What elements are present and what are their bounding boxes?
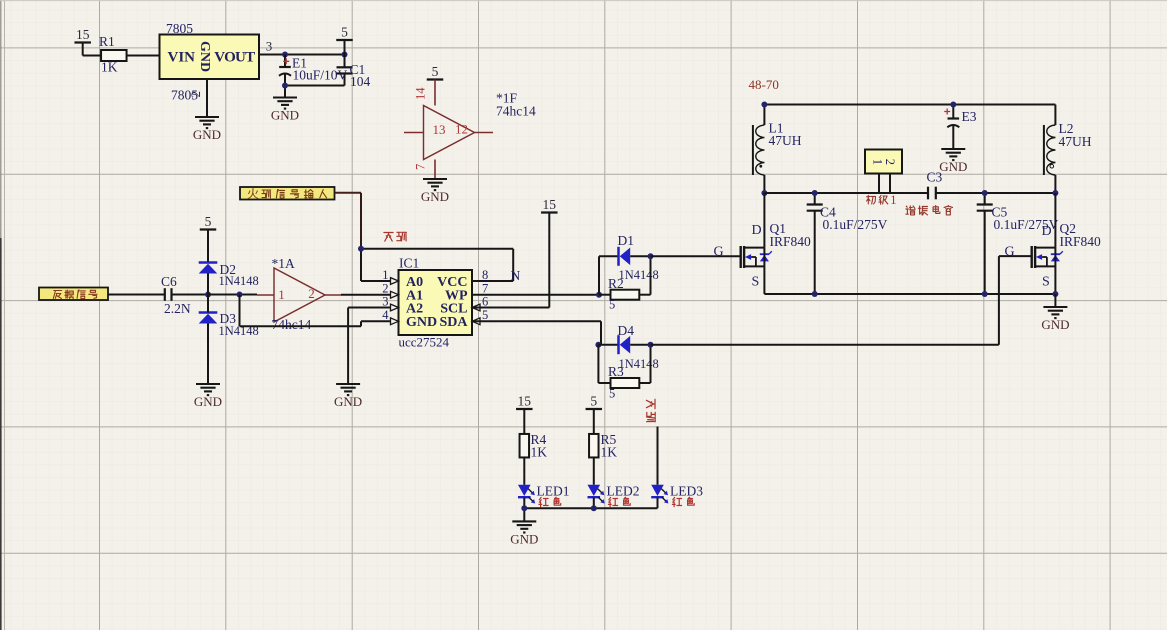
wire mid rail to Q1 drain — [763, 193, 765, 248]
svg-text:ucc27524: ucc27524 — [399, 335, 450, 350]
svg-text:R1: R1 — [99, 34, 115, 49]
svg-text:5: 5 — [205, 214, 212, 229]
junction pin5/D4 — [595, 342, 601, 348]
svg-text:G: G — [714, 245, 724, 260]
junction Q2 source — [1052, 291, 1058, 297]
svg-text:D: D — [752, 223, 762, 238]
resistor R5 1K — [589, 432, 617, 485]
svg-text:8: 8 — [482, 268, 488, 282]
junction L2 bottom — [1052, 190, 1058, 196]
transistor Q2 IRF840 — [1005, 221, 1102, 294]
junction C6/D2/D3 — [205, 292, 211, 298]
svg-text:7: 7 — [414, 164, 428, 170]
capacitor C4 0.1uF/275V — [807, 193, 888, 294]
wire source bus — [764, 293, 1055, 295]
svg-text:1N4148: 1N4148 — [619, 357, 659, 371]
power rail +5 above R5 — [586, 394, 603, 435]
wire to Q2 gate — [651, 256, 1032, 345]
svg-text:S: S — [752, 275, 760, 290]
svg-text:SCL: SCL — [440, 301, 467, 316]
svg-text:5: 5 — [609, 387, 615, 401]
junction net 灭弧 — [358, 246, 364, 252]
junction E1 bottom — [282, 83, 288, 89]
LED1 red — [518, 484, 570, 509]
capacitor C1 104 — [337, 55, 371, 89]
ground under E1/C1 — [271, 98, 299, 123]
wire pin7 to gate node — [472, 294, 599, 296]
net label 48-70 — [749, 77, 779, 92]
diode D2 1N4148 — [199, 262, 259, 295]
junction C5 bottom — [982, 291, 988, 297]
resistor R4 1K — [520, 432, 548, 485]
svg-text:1N4148: 1N4148 — [219, 274, 259, 288]
junction E3 top — [950, 102, 956, 108]
IC U1 ucc27524 — [382, 256, 488, 350]
svg-text:IRF840: IRF840 — [770, 234, 812, 249]
wire pin6 to 15 rail — [472, 213, 549, 308]
junction C4 top — [812, 190, 818, 196]
svg-text:GND: GND — [1041, 317, 1069, 332]
svg-text:1K: 1K — [101, 60, 118, 75]
svg-text:3: 3 — [382, 294, 388, 308]
svg-text:5: 5 — [590, 394, 597, 409]
svg-text:47UH: 47UH — [769, 133, 802, 148]
wire port to pin1/pin8 net — [335, 193, 514, 281]
svg-text:5: 5 — [482, 308, 488, 322]
svg-text:104: 104 — [350, 74, 371, 89]
svg-text:*1A: *1A — [272, 256, 296, 271]
wire 15 rail to R1 — [83, 43, 101, 56]
wire 灭弧 to LED3 — [657, 427, 659, 485]
svg-text:1: 1 — [278, 287, 285, 302]
junction VOUT/E1 — [282, 52, 288, 58]
power rail +5 for U2F — [427, 64, 444, 80]
svg-text:5: 5 — [609, 298, 615, 312]
svg-text:1K: 1K — [531, 445, 548, 460]
svg-text:GND: GND — [421, 189, 449, 204]
junction VOUT/C1/5 rail — [342, 52, 348, 58]
svg-text:2.2N: 2.2N — [164, 301, 191, 316]
regulator 7805 U3 — [160, 21, 260, 103]
LED2 red — [588, 484, 640, 509]
capacitor E1 10uF/10V — [279, 55, 348, 86]
svg-text:VIN: VIN — [168, 50, 196, 66]
svg-text:3: 3 — [266, 39, 273, 54]
net label 谐振电容 — [906, 205, 953, 215]
svg-text:74hc14: 74hc14 — [496, 104, 536, 119]
svg-text:GND: GND — [334, 394, 362, 409]
svg-text:D: D — [1042, 224, 1052, 239]
junction C5 top — [982, 190, 988, 196]
svg-text:2: 2 — [308, 286, 315, 301]
svg-text:7805: 7805 — [166, 21, 193, 36]
ground under 7805 — [193, 117, 221, 142]
wire C6 to node — [172, 294, 209, 296]
capacitor C6 2.2N — [161, 274, 208, 316]
ground under IC1 pin3 — [334, 384, 362, 409]
junction at gate input branch — [237, 292, 243, 298]
port 反馈信号 (feedback signal) — [39, 288, 108, 301]
svg-text:R2: R2 — [608, 276, 624, 291]
inductor L1 47UH — [753, 121, 802, 194]
wire LED cathode bus — [524, 508, 657, 521]
ground under E3 — [939, 149, 967, 174]
resistor R3 5 — [598, 345, 650, 401]
wire 7805 pin2 to ground — [206, 79, 208, 117]
net label 灭弧 rotated — [646, 399, 655, 421]
svg-text:74hc14: 74hc14 — [272, 317, 312, 332]
transistor Q1 IRF840 — [714, 221, 812, 294]
svg-text:4: 4 — [382, 308, 389, 322]
svg-text:SDA: SDA — [439, 315, 468, 330]
svg-text:N: N — [511, 268, 521, 283]
svg-text:E3: E3 — [962, 109, 977, 124]
wire gate output to IC1 pin2 — [324, 294, 391, 296]
svg-text:IRF840: IRF840 — [1060, 234, 1102, 249]
junction top rail L1 — [761, 102, 767, 108]
svg-text:15: 15 — [543, 197, 557, 212]
svg-text:GND: GND — [194, 394, 222, 409]
svg-text:1K: 1K — [601, 445, 618, 460]
net label 灭弧 — [384, 232, 406, 241]
op-amp gate U2F 74hc14 — [404, 80, 536, 180]
ground under LEDs — [510, 521, 538, 546]
svg-text:R3: R3 — [608, 364, 624, 379]
svg-text:1: 1 — [890, 193, 896, 207]
svg-text:S: S — [1042, 275, 1050, 290]
power rail +15 — [74, 27, 91, 43]
diode D4 1N4148 — [598, 323, 658, 371]
wire R1 to U3 pin1 — [127, 39, 184, 56]
svg-text:LED3: LED3 — [670, 484, 703, 499]
svg-text:C6: C6 — [161, 274, 177, 289]
svg-text:D4: D4 — [618, 323, 635, 338]
capacitor C3 — [927, 170, 943, 200]
ground under U2F — [421, 179, 449, 204]
svg-text:D1: D1 — [618, 233, 635, 248]
svg-text:2: 2 — [883, 159, 897, 165]
svg-text:14: 14 — [414, 87, 428, 100]
svg-text:13: 13 — [433, 122, 446, 137]
junction C4 bottom — [812, 291, 818, 297]
power rail +15 above R4 — [516, 394, 533, 435]
svg-text:12: 12 — [455, 122, 468, 137]
svg-text:LED1: LED1 — [537, 484, 570, 499]
diode D3 1N4148 — [199, 295, 259, 385]
diode D1 1N4148 — [599, 233, 659, 295]
junction L1 bottom — [761, 190, 767, 196]
wire pin5 to D4 node — [472, 321, 601, 344]
wire node to IC1 pin4 — [240, 295, 391, 327]
net label N at pin8 — [511, 268, 521, 283]
svg-text:A2: A2 — [406, 301, 423, 316]
svg-text:2: 2 — [188, 91, 203, 98]
wire IC1 pin3 to ground — [348, 308, 390, 385]
svg-text:1N4148: 1N4148 — [619, 268, 659, 282]
junction LED2 bus — [591, 505, 597, 511]
wire VOUT net — [259, 39, 345, 55]
connector 初级1 (primary winding) — [865, 150, 902, 208]
svg-text:GND: GND — [406, 315, 437, 330]
ground right — [1041, 307, 1069, 332]
svg-text:LED2: LED2 — [607, 484, 640, 499]
wire E1/C1 bottom — [285, 86, 345, 98]
wire top rail 48-70 — [764, 105, 1055, 126]
svg-text:GND: GND — [197, 41, 212, 72]
svg-text:15: 15 — [76, 27, 90, 42]
junction LED1 bus — [521, 505, 527, 511]
svg-text:GND: GND — [510, 531, 538, 546]
power rail +15 at pin6 — [541, 197, 558, 213]
resistor R1 — [99, 34, 127, 75]
svg-text:火: 火 — [247, 187, 259, 201]
op-amp gate U2A 74hc14 — [272, 256, 326, 332]
LED3 red — [651, 484, 703, 509]
capacitor C5 0.1uF/275V — [977, 193, 1059, 294]
junction D4/gate Q2 — [648, 342, 654, 348]
svg-text:VOUT: VOUT — [214, 50, 255, 66]
svg-text:GND: GND — [271, 108, 299, 123]
ground under D3 — [194, 384, 222, 409]
svg-text:IC1: IC1 — [399, 256, 419, 271]
junction D1/gate Q1 — [648, 253, 654, 259]
svg-text:10uF/10V: 10uF/10V — [293, 67, 348, 82]
svg-text:15: 15 — [518, 394, 532, 409]
svg-text:GND: GND — [939, 159, 967, 174]
wire resonant mid rail — [764, 192, 1055, 194]
svg-text:5: 5 — [432, 64, 439, 79]
wire Q2 source to ground — [1054, 294, 1056, 307]
wire L2 to Q2 drain — [1054, 193, 1056, 248]
svg-text:0.1uF/275V: 0.1uF/275V — [823, 217, 888, 232]
capacitor E3 — [944, 105, 977, 150]
svg-text:5: 5 — [341, 25, 348, 40]
svg-text:GND: GND — [193, 127, 221, 142]
power rail +5 top — [336, 25, 353, 55]
inductor L2 47UH — [1044, 105, 1092, 194]
svg-text:G: G — [1005, 245, 1015, 260]
wire port to C6 — [108, 294, 165, 296]
svg-text:1: 1 — [382, 268, 388, 282]
port 火弧信号输入 (arc signal input) — [240, 187, 335, 201]
junction pin7/R2/D1 — [596, 292, 602, 298]
svg-text:47UH: 47UH — [1059, 134, 1092, 149]
svg-text:1: 1 — [871, 159, 885, 165]
wire to Q1 gate — [651, 255, 741, 257]
svg-text:6: 6 — [482, 294, 488, 308]
power rail +5 above D2 — [200, 214, 217, 263]
resistor R2 5 — [599, 256, 651, 311]
svg-text:48-70: 48-70 — [749, 77, 779, 92]
wire node to gate input — [208, 294, 274, 297]
